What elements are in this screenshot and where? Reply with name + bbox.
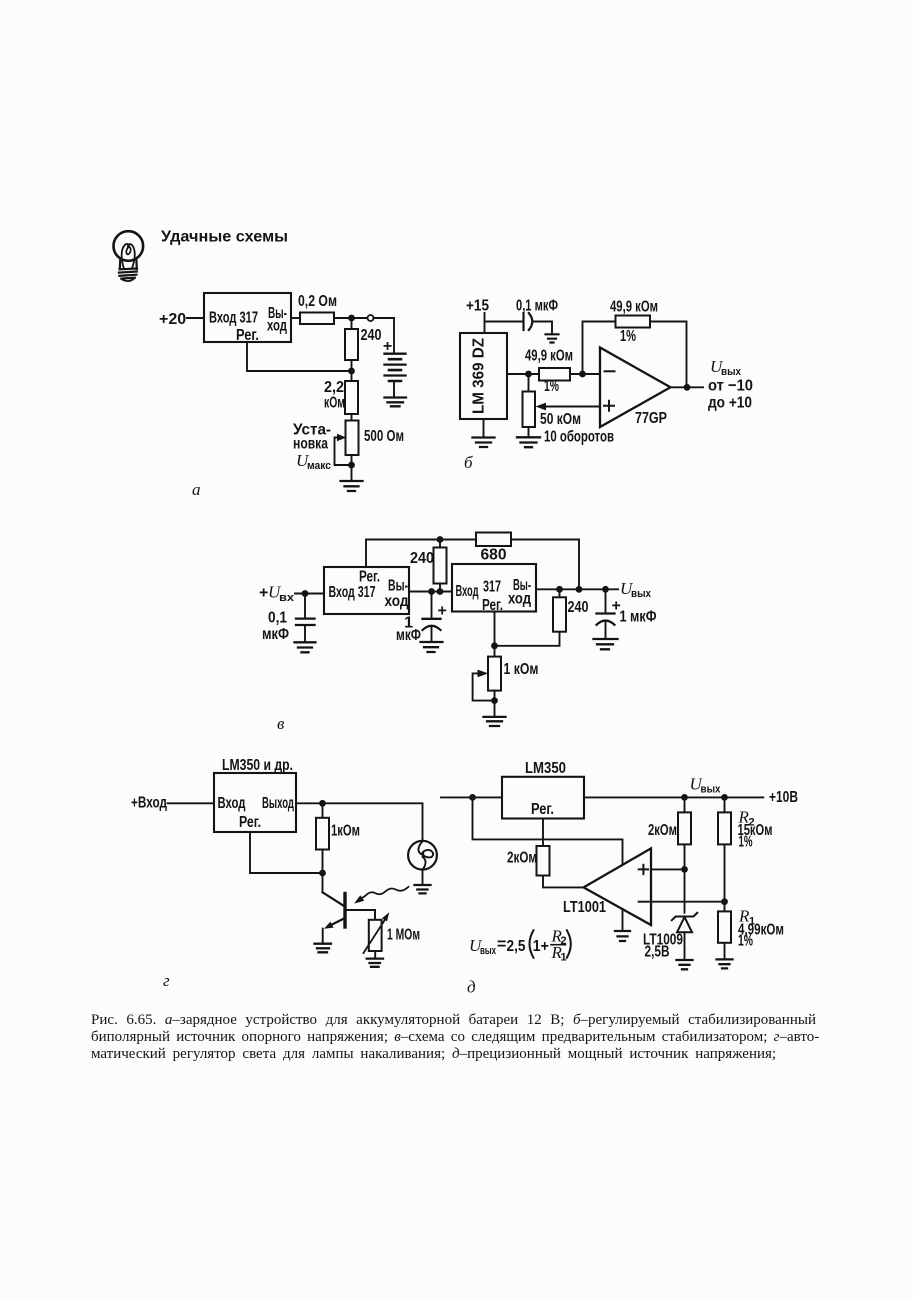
resistor 0,2 Ом	[300, 313, 334, 325]
svg-text:1%: 1%	[739, 834, 753, 851]
value 240 second	[568, 599, 589, 616]
resistor 49,9 кОм input	[539, 368, 570, 381]
op-amp LT1001	[584, 848, 651, 925]
svg-text:в: в	[277, 714, 285, 733]
value 500 Ом	[364, 428, 404, 445]
node junction 680 down	[576, 586, 583, 593]
value LT1009 2,5В	[643, 931, 683, 960]
pin label Рег. d	[531, 801, 554, 818]
wire input	[295, 593, 324, 595]
node junction out cap	[602, 586, 609, 593]
svg-text:г: г	[163, 971, 170, 990]
node junction summing	[579, 371, 586, 378]
value 49,9 кОм 1% feedback	[610, 299, 658, 346]
svg-text:49,9 кОм: 49,9 кОм	[610, 299, 658, 316]
node junction adj	[348, 368, 355, 375]
svg-text:+: +	[438, 603, 447, 620]
svg-text:+: +	[259, 585, 268, 602]
label Uвых d	[690, 775, 722, 796]
light squiggle arrow	[354, 887, 409, 904]
wire reg pin	[250, 832, 323, 873]
wire box to ground	[483, 419, 485, 437]
label Установка Uмакс	[293, 422, 331, 473]
node junction input d	[469, 794, 476, 801]
ground zener	[677, 960, 693, 969]
wire reg pin to 2k	[542, 819, 544, 847]
node junction pot bottom	[491, 697, 498, 704]
zener LT1009	[672, 913, 697, 959]
node junction reg2	[491, 642, 498, 649]
svg-text:+20: +20	[159, 311, 186, 328]
figure caption line 3	[91, 1046, 831, 1063]
node junction cap1	[428, 588, 435, 595]
svg-text:Вход: Вход	[456, 583, 479, 600]
ground out cap	[594, 639, 618, 649]
regulator 317 box	[204, 293, 291, 342]
svg-text:б: б	[464, 453, 473, 472]
svg-text:Вход 317: Вход 317	[329, 584, 376, 601]
op-amp 77GP	[600, 348, 671, 428]
node junction R2	[721, 794, 728, 801]
lamp	[408, 841, 437, 884]
node +15 label	[466, 298, 489, 315]
pin label Вы-ход	[267, 305, 287, 335]
node junction r240	[437, 588, 444, 595]
wire reference out	[507, 373, 600, 375]
wire regulator out to R 0,2	[291, 317, 300, 319]
svg-text:2,5В: 2,5В	[645, 943, 670, 960]
wire box1 reg pin up	[366, 540, 476, 568]
svg-text:49,9 кОм: 49,9 кОм	[525, 348, 573, 365]
svg-text:1 кОм: 1 кОм	[504, 661, 539, 678]
value 1 МОм	[387, 927, 420, 944]
wire pot bottom	[351, 455, 353, 480]
label a	[192, 480, 201, 499]
svg-text:ход: ход	[267, 318, 287, 335]
label LT1001	[563, 899, 606, 916]
svg-text:1кОм: 1кОм	[331, 823, 360, 840]
svg-text:+Вход: +Вход	[131, 795, 167, 812]
value 1 кОм	[504, 661, 539, 678]
resistor 240 first	[434, 540, 447, 592]
wiper 1 кОм	[473, 670, 495, 701]
svg-text:Рег.: Рег.	[482, 597, 503, 614]
label v	[277, 714, 285, 733]
wire 2k to op-amp output	[543, 876, 584, 888]
svg-text:240: 240	[410, 550, 434, 567]
label Uвых	[620, 579, 652, 600]
svg-text:50 кОм: 50 кОм	[540, 411, 581, 428]
pin labels	[218, 795, 295, 831]
potentiometer 50 кОм	[523, 374, 536, 437]
pin label Рег.	[236, 327, 259, 344]
resistor 2кОм middle	[678, 797, 691, 844]
svg-text:вых: вых	[631, 588, 652, 600]
resistor 1 кОм	[316, 803, 329, 873]
node output junction	[684, 384, 691, 391]
svg-text:Рег.: Рег.	[359, 569, 380, 586]
wiper arrow and wire	[335, 434, 352, 465]
wire Рег. pin to divider	[247, 342, 348, 371]
capacitor 0,1 мкФ input	[296, 594, 315, 642]
svg-text:+10В: +10В	[769, 789, 798, 806]
svg-text:кОм: кОм	[324, 395, 345, 412]
value R1 4,99кОм 1%	[738, 907, 784, 950]
svg-text:мкФ: мкФ	[396, 627, 421, 644]
node junction top	[437, 536, 444, 543]
regulator box 2	[452, 564, 536, 612]
node +Uвх label	[259, 583, 295, 605]
node junction ref out	[525, 371, 532, 378]
wire output rail	[584, 796, 763, 798]
svg-text:0,1: 0,1	[268, 610, 287, 627]
resistor 240	[345, 318, 358, 371]
svg-text:д: д	[467, 978, 476, 997]
node junction base	[319, 870, 326, 877]
svg-text:2кОм: 2кОм	[648, 822, 677, 839]
svg-text:вых: вых	[721, 366, 742, 378]
value 1 мкФ middle	[396, 615, 421, 645]
value 50 кОм 10 оборотов	[540, 411, 614, 446]
resistor 49,9 кОм feedback	[616, 316, 651, 328]
svg-text:Вход: Вход	[218, 795, 246, 812]
node open terminal	[368, 315, 374, 321]
wire minus input	[651, 901, 725, 903]
wire 2k mid down to zener	[684, 844, 686, 912]
svg-text:2,2: 2,2	[324, 379, 344, 396]
svg-text:Рег.: Рег.	[531, 801, 554, 818]
wire box2 output	[536, 588, 618, 590]
svg-text:вых: вых	[701, 784, 722, 796]
resistor 680	[476, 533, 511, 547]
wire +15 to box	[484, 313, 486, 333]
svg-text:Рег.: Рег.	[239, 814, 261, 831]
svg-text:LM350 и др.: LM350 и др.	[222, 757, 293, 774]
svg-text:240: 240	[568, 599, 589, 616]
label LM350 и др.	[222, 757, 293, 774]
svg-text:0,1 мкФ: 0,1 мкФ	[516, 298, 558, 315]
svg-text:Выход: Выход	[262, 795, 294, 812]
svg-text:1%: 1%	[544, 378, 559, 395]
value 2кОм middle	[648, 822, 677, 839]
svg-text:2,5: 2,5	[507, 938, 526, 955]
svg-text:+15: +15	[466, 298, 489, 315]
value 49,9 кОм 1%	[525, 348, 573, 396]
resistor 240 second	[495, 589, 567, 646]
svg-text:от −10: от −10	[708, 378, 753, 395]
node junction pot bottom	[348, 462, 355, 469]
svg-text:ход: ход	[385, 593, 409, 610]
ground battery	[385, 398, 407, 407]
wire cap to ground	[534, 322, 553, 334]
svg-text:Удачные схемы: Удачные схемы	[161, 229, 288, 246]
ground pot v	[484, 717, 506, 726]
capacitor 1 мкФ output	[597, 589, 621, 638]
ground pot	[517, 437, 540, 447]
svg-text:500 Ом: 500 Ом	[364, 428, 404, 445]
wire op-amp output	[671, 386, 704, 388]
ground circuit a	[341, 481, 363, 491]
label b	[464, 453, 473, 472]
svg-text:Вы-: Вы-	[388, 578, 408, 595]
wire feedback up	[583, 322, 616, 375]
reference LM369DZ box	[460, 333, 507, 419]
svg-text:LM 369 DZ: LM 369 DZ	[471, 338, 488, 414]
label d	[467, 978, 476, 997]
node +20 input label	[159, 311, 186, 328]
potentiometer 1 кОм	[488, 657, 501, 691]
resistor 2кОм left	[537, 846, 550, 876]
svg-text:1 МОм: 1 МОм	[387, 927, 420, 944]
svg-text:+: +	[383, 338, 392, 355]
resistor 2,2 кОм	[345, 371, 358, 421]
pin labels box2	[456, 577, 532, 614]
battery 12V	[383, 318, 406, 397]
pin labels box1	[329, 569, 409, 611]
svg-text:=: =	[497, 936, 506, 953]
value 240 first	[410, 550, 434, 567]
svg-text:LT1001: LT1001	[563, 899, 606, 916]
wire to bypass cap	[485, 321, 522, 323]
ground input cap	[295, 642, 316, 652]
light bulb icon	[114, 231, 144, 281]
value 2кОм left	[507, 849, 537, 866]
ground emitter	[315, 944, 332, 953]
svg-text:вых: вых	[480, 945, 497, 957]
wiper wire to plus input	[536, 403, 601, 411]
svg-text:1: 1	[561, 952, 567, 964]
wire box2 reg pin down	[494, 612, 496, 657]
label g	[163, 971, 170, 990]
svg-text:Вход 317: Вход 317	[209, 310, 258, 327]
ground op-amp	[615, 931, 630, 941]
wire pot to ground	[494, 691, 496, 716]
node junction output	[348, 315, 355, 322]
svg-text:0,2 Ом: 0,2 Ом	[298, 293, 337, 310]
ground lamp	[415, 885, 431, 893]
node +Вход label	[131, 795, 167, 812]
value R2 15кОм 1%	[738, 808, 773, 851]
ground 1 МОм	[367, 959, 383, 967]
value 240	[361, 327, 382, 344]
phototransistor	[323, 892, 376, 942]
node junction plus	[681, 866, 688, 873]
label +10В	[769, 789, 798, 806]
value 1 мкФ output	[620, 609, 657, 626]
svg-text:680: 680	[481, 547, 507, 564]
ground cap middle	[421, 642, 443, 652]
svg-text:77GP: 77GP	[635, 410, 667, 427]
svg-text:до +10: до +10	[708, 395, 752, 412]
svg-text:1%: 1%	[738, 933, 753, 950]
wire feedback to output	[650, 322, 687, 388]
node junction 2k mid	[681, 794, 688, 801]
ground cap	[546, 334, 559, 342]
svg-text:мкФ: мкФ	[262, 626, 289, 643]
wire resistor to battery branch	[334, 317, 394, 319]
wire input d	[441, 796, 502, 798]
node junction input	[302, 590, 309, 597]
node junction output	[319, 800, 326, 807]
svg-text:а: а	[192, 480, 201, 499]
svg-text:вх: вх	[279, 592, 295, 604]
ground LM369	[473, 438, 495, 448]
svg-text:240: 240	[361, 327, 382, 344]
value 1кОм	[331, 823, 360, 840]
node junction 240-2	[556, 586, 563, 593]
wire plus input	[651, 868, 685, 870]
svg-text:2кОм: 2кОм	[507, 849, 537, 866]
label Uвых от -10 до +10	[708, 357, 753, 412]
resistor R2	[718, 797, 731, 901]
figure caption line 1	[91, 1012, 831, 1029]
value 0,2 Ом	[298, 293, 337, 310]
svg-text:новка: новка	[293, 436, 328, 453]
header title	[161, 229, 288, 246]
capacitor 1 мкФ middle	[423, 592, 447, 642]
pin label Вход 317	[209, 310, 258, 327]
capacitor 0,1 мкФ	[524, 313, 533, 330]
node junction minus	[721, 898, 728, 905]
value 680	[481, 547, 507, 564]
ground R1	[717, 959, 733, 968]
regulator box 1	[324, 567, 409, 614]
photoresistor 1 МОм	[364, 912, 390, 958]
resistor R1	[718, 902, 731, 959]
wire to transistor	[322, 873, 324, 892]
value 0,1 мкФ	[262, 610, 289, 644]
svg-text:ход: ход	[508, 591, 531, 608]
wire 680 to output node	[511, 540, 579, 590]
potentiometer 500 Ом	[346, 421, 359, 456]
regulator box LM350 d	[502, 777, 584, 819]
svg-text:1+: 1+	[533, 938, 549, 955]
svg-text:10 оборотов: 10 оборотов	[544, 429, 614, 446]
wire op-amp supply	[473, 797, 623, 865]
wire op-amp vminus	[622, 909, 624, 930]
wire box1 out to box2	[409, 591, 452, 593]
regulator box LM350	[214, 773, 296, 832]
svg-text:макс: макс	[307, 460, 331, 472]
wire output to lamp	[296, 803, 423, 841]
label LM350	[525, 760, 566, 777]
svg-text:1%: 1%	[620, 328, 636, 345]
wire input to regulator	[187, 317, 204, 319]
svg-text:317: 317	[483, 579, 501, 596]
figure caption line 2	[91, 1029, 831, 1046]
svg-text:1 мкФ: 1 мкФ	[620, 609, 657, 626]
formula Uвых=2,5(1+R2/R1)	[469, 927, 571, 964]
value 2,2 кОм	[324, 379, 345, 412]
value 0,1 мкФ	[516, 298, 558, 315]
wire input	[168, 802, 215, 804]
svg-text:LM350: LM350	[525, 760, 566, 777]
